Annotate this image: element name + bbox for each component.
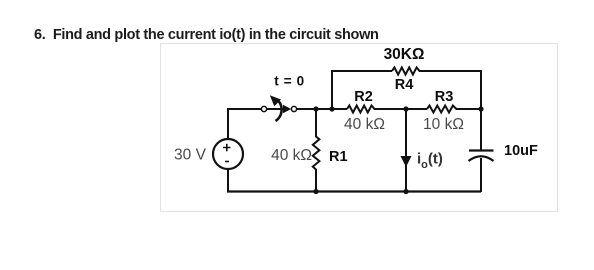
- switch SW1 (t=0): [261, 95, 296, 121]
- svg-text:R1: R1: [329, 149, 348, 165]
- wire: R1 branch lower: [315, 169, 317, 192]
- svg-text:R3: R3: [435, 89, 454, 105]
- node dot: top-loop left: [329, 106, 334, 111]
- voltage source V1 (30 V): [213, 139, 243, 169]
- svg-text:R2: R2: [354, 89, 373, 105]
- svg-text:30KΩ: 30KΩ: [384, 46, 425, 63]
- title text: [34, 27, 379, 43]
- wire: below capacitor: [480, 158, 482, 192]
- wire: right rail top (corner to cap): [480, 70, 482, 150]
- wire: R2 to R3: [377, 108, 427, 110]
- wire: switch to R2: [296, 108, 347, 110]
- capacitor C1 plates: [469, 151, 494, 162]
- svg-text:40 kΩ: 40 kΩ: [344, 116, 385, 133]
- wire: source bottom down: [227, 169, 229, 192]
- wire: top-left L from source top to switch: [228, 109, 262, 139]
- resistor R1 vertical zigzag: [313, 137, 320, 170]
- wire: top rail right segment: [422, 70, 483, 72]
- resistor R3 zigzag: [427, 106, 459, 113]
- node dot: right node: [478, 106, 483, 111]
- svg-text:t = 0: t = 0: [274, 74, 304, 89]
- svg-text:10 kΩ: 10 kΩ: [423, 116, 464, 133]
- wire: R3 to right node: [459, 108, 481, 110]
- node dot: bottom io: [403, 189, 408, 194]
- svg-text:10uF: 10uF: [504, 143, 538, 159]
- wire: bottom rail: [227, 190, 481, 192]
- resistor R4 zigzag: [392, 67, 422, 74]
- svg-text:40 kΩ: 40 kΩ: [271, 147, 312, 164]
- node dot: bottom R1: [313, 189, 318, 194]
- svg-text:R4: R4: [395, 77, 414, 93]
- svg-text:30 V: 30 V: [174, 147, 207, 164]
- node dot: middle node: [403, 106, 408, 111]
- resistor R2 zigzag: [347, 106, 377, 113]
- wire: io branch: [405, 109, 407, 192]
- node dot: R1 branch top: [313, 106, 318, 111]
- current arrow io(t): [401, 156, 412, 167]
- wire: R1 branch upper: [315, 109, 317, 137]
- panel frame: [160, 43, 558, 212]
- svg-text:io(t): io(t): [417, 151, 443, 172]
- wire: top rail left segment: [331, 70, 392, 72]
- wire: riser to top rail: [331, 71, 333, 109]
